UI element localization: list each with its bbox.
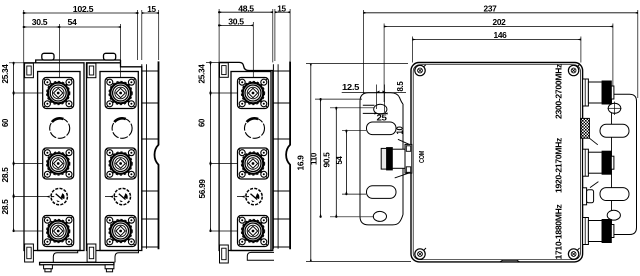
svg-text:25: 25 — [377, 114, 388, 123]
svg-text:48.5: 48.5 — [238, 4, 254, 14]
svg-text:10: 10 — [396, 126, 405, 135]
svg-text:16.9: 16.9 — [297, 154, 306, 170]
svg-text:54: 54 — [335, 156, 344, 165]
svg-text:25.34: 25.34 — [198, 63, 207, 83]
svg-text:60: 60 — [198, 118, 207, 127]
svg-text:12.5: 12.5 — [342, 83, 360, 92]
svg-text:2300-2700MHz: 2300-2700MHz — [555, 64, 564, 119]
svg-text:202: 202 — [493, 17, 507, 27]
svg-text:8.5: 8.5 — [396, 81, 405, 92]
svg-text:15: 15 — [277, 4, 286, 14]
svg-text:30.5: 30.5 — [32, 17, 48, 27]
svg-text:25.34: 25.34 — [1, 63, 10, 83]
svg-text:54: 54 — [68, 17, 78, 27]
svg-text:56.99: 56.99 — [198, 178, 207, 198]
svg-text:28.5: 28.5 — [1, 166, 10, 182]
svg-text:28.5: 28.5 — [1, 198, 10, 214]
svg-text:15: 15 — [147, 4, 156, 14]
svg-text:60: 60 — [1, 118, 10, 127]
svg-text:COM: COM — [419, 151, 426, 163]
svg-text:146: 146 — [494, 30, 508, 40]
svg-text:1920-2170MHz: 1920-2170MHz — [555, 138, 564, 193]
svg-text:30.5: 30.5 — [228, 16, 244, 26]
svg-text:1710-1880MHz: 1710-1880MHz — [555, 204, 564, 259]
svg-text:102.5: 102.5 — [73, 4, 94, 14]
svg-text:90.5: 90.5 — [323, 151, 332, 167]
svg-text:237: 237 — [484, 3, 498, 13]
svg-text:110: 110 — [310, 152, 319, 165]
